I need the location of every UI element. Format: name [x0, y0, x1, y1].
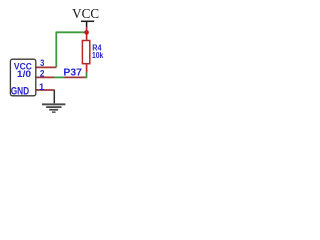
- wire pin1 to ground: [36, 89, 54, 91]
- wire VCC to resistor: [86, 27, 88, 41]
- connector component box: [10, 59, 35, 96]
- svg-text:1: 1: [39, 82, 45, 93]
- wire net VCC green: junction to pin 3: [56, 32, 86, 67]
- svg-text:2: 2: [40, 68, 45, 79]
- svg-text:GND: GND: [11, 85, 30, 97]
- ground: [42, 90, 65, 113]
- junction: [84, 30, 89, 35]
- svg-text:10k: 10k: [92, 51, 104, 60]
- resistor R4: [82, 41, 89, 73]
- wire green corner below resistor: [85, 72, 87, 77]
- svg-text:1/0: 1/0: [17, 69, 31, 80]
- wire pin2 run red left: [36, 76, 54, 78]
- wire pin2 green segment: [54, 76, 65, 78]
- wire pin2 run red right: [65, 76, 86, 78]
- svg-text:VCC: VCC: [72, 7, 99, 22]
- power symbol VCC: [72, 7, 99, 27]
- svg-text:P37: P37: [63, 67, 82, 79]
- wire pin3 to green vertical: [36, 66, 57, 68]
